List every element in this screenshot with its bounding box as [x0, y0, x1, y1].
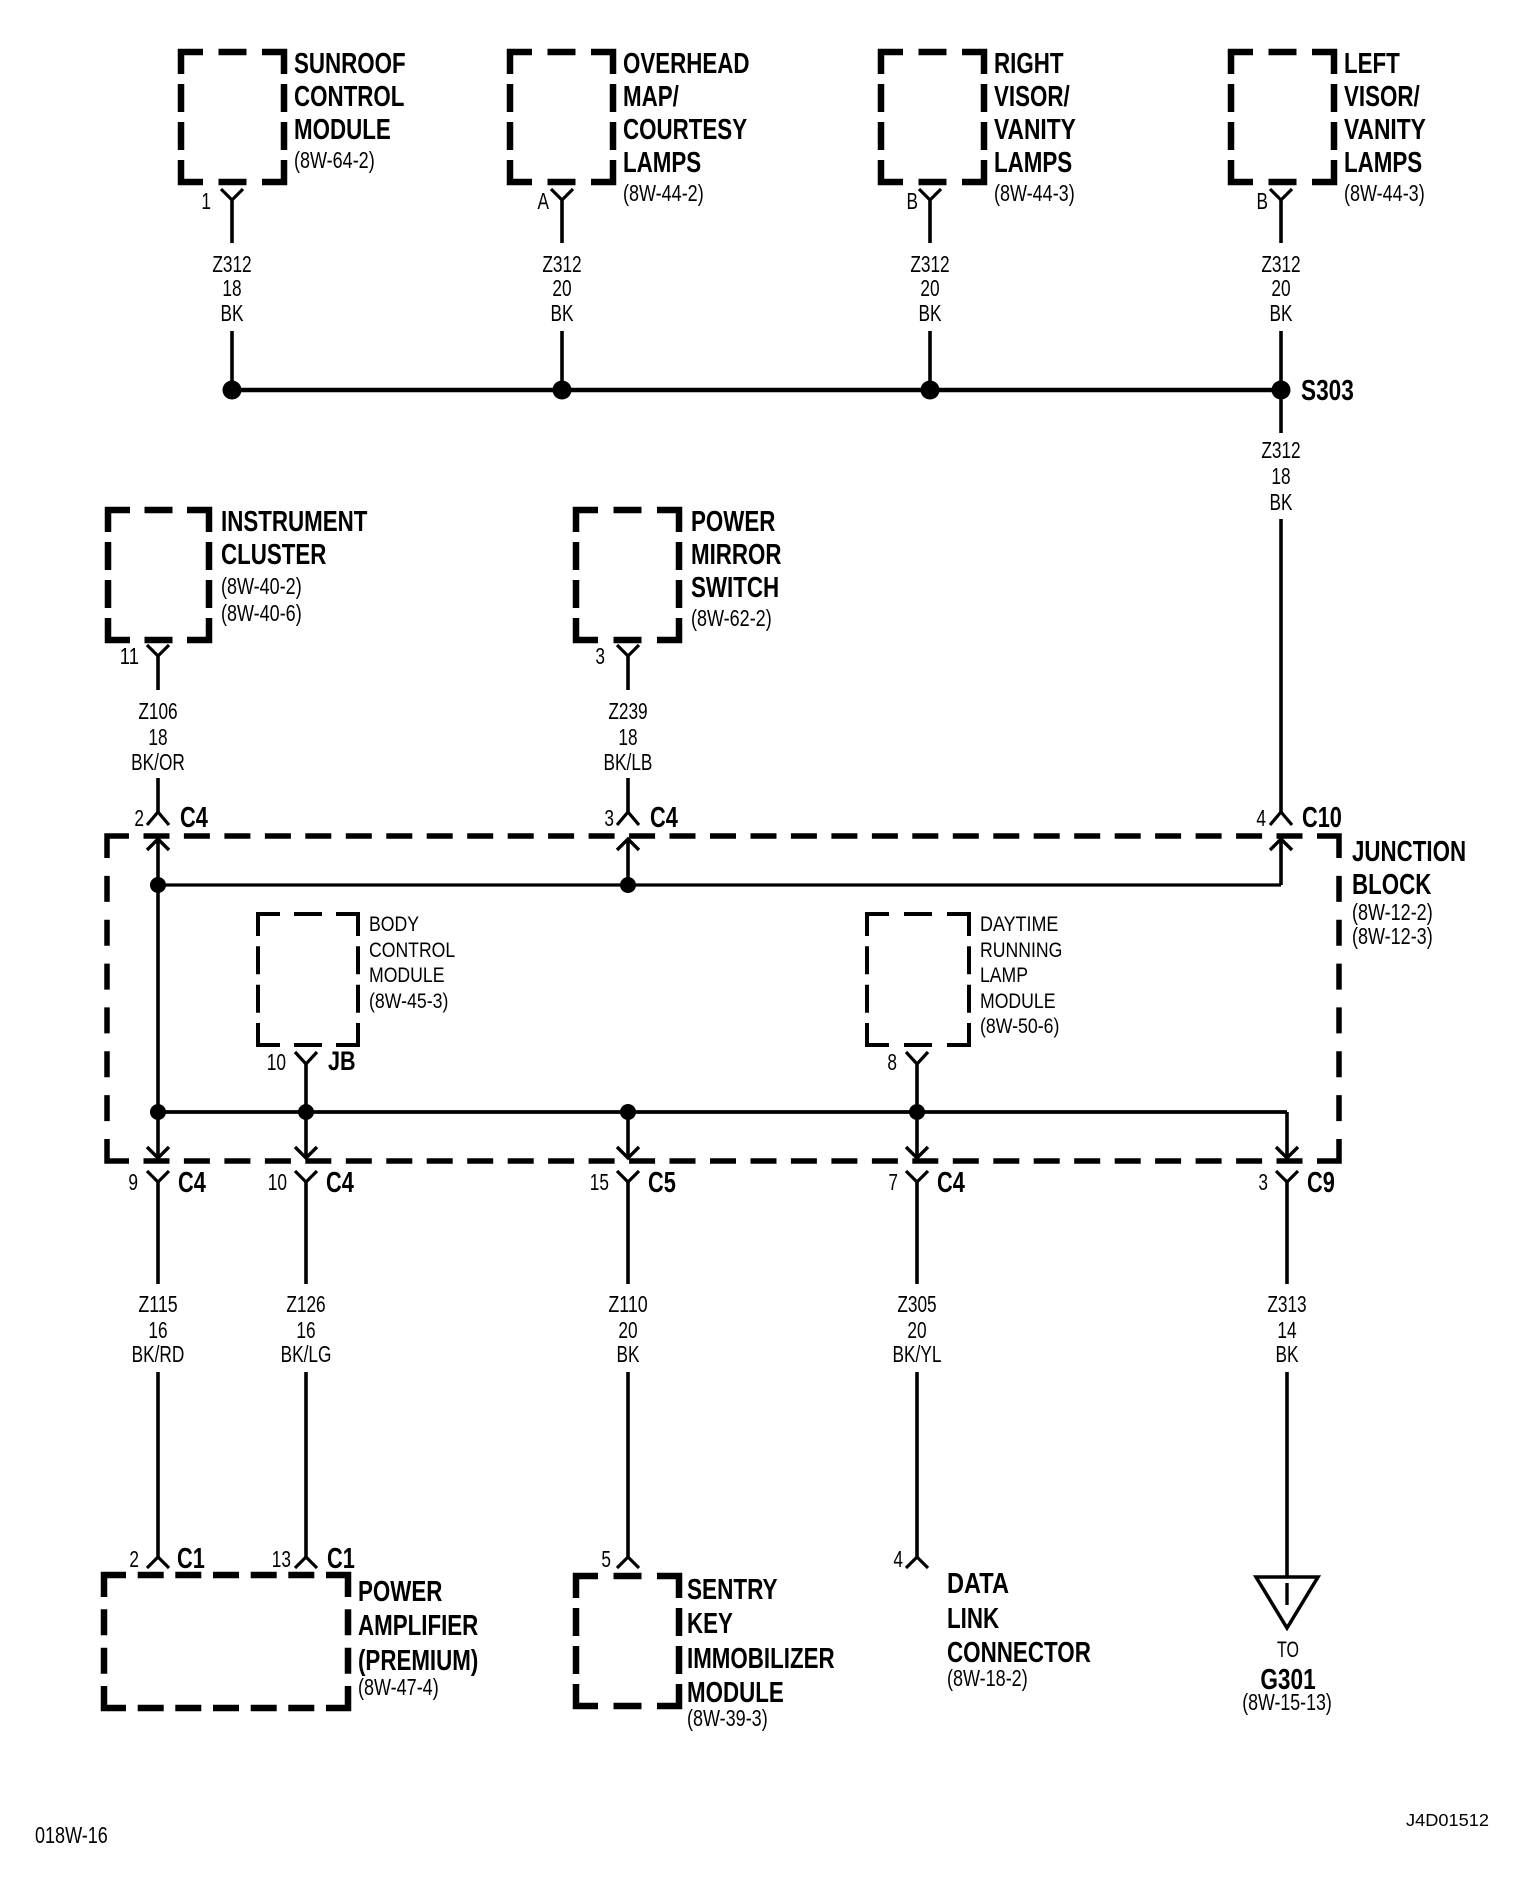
svg-text:TO: TO [1277, 1637, 1299, 1662]
svg-text:B: B [1257, 188, 1269, 214]
svg-text:BK: BK [221, 300, 244, 326]
svg-text:11: 11 [120, 643, 139, 669]
svg-text:LEFT: LEFT [1344, 48, 1400, 80]
svg-text:7: 7 [888, 1169, 898, 1195]
svg-text:Z115: Z115 [138, 1291, 177, 1317]
svg-text:KEY: KEY [687, 1608, 733, 1640]
svg-text:(8W-44-3): (8W-44-3) [1344, 180, 1425, 206]
svg-text:A: A [538, 188, 550, 214]
svg-text:MODULE: MODULE [294, 114, 391, 146]
svg-text:18: 18 [148, 724, 167, 750]
svg-text:16: 16 [148, 1317, 167, 1343]
svg-text:2: 2 [134, 805, 144, 831]
svg-text:SWITCH: SWITCH [691, 572, 779, 604]
svg-text:BK/YL: BK/YL [893, 1341, 942, 1367]
svg-text:(8W-40-6): (8W-40-6) [221, 600, 302, 626]
svg-text:Z106: Z106 [138, 698, 177, 724]
svg-text:Z312: Z312 [1261, 437, 1300, 463]
svg-text:BLOCK: BLOCK [1352, 869, 1431, 901]
svg-text:JUNCTION: JUNCTION [1352, 836, 1466, 868]
svg-text:C9: C9 [1307, 1167, 1335, 1199]
svg-text:Z312: Z312 [1261, 251, 1300, 277]
svg-text:LAMPS: LAMPS [1344, 147, 1422, 179]
svg-text:RIGHT: RIGHT [994, 48, 1064, 80]
svg-text:018W-16: 018W-16 [35, 1822, 108, 1848]
svg-text:VANITY: VANITY [994, 114, 1076, 146]
svg-text:18: 18 [618, 724, 637, 750]
svg-text:BK: BK [617, 1341, 640, 1367]
svg-text:DATA: DATA [947, 1568, 1009, 1600]
svg-text:MODULE: MODULE [369, 964, 445, 987]
svg-text:(8W-44-2): (8W-44-2) [623, 180, 704, 206]
svg-text:C5: C5 [648, 1167, 676, 1199]
svg-text:Z313: Z313 [1267, 1291, 1306, 1317]
svg-text:IMMOBILIZER: IMMOBILIZER [687, 1643, 835, 1675]
svg-text:Z239: Z239 [608, 698, 647, 724]
svg-text:BK/LG: BK/LG [281, 1341, 332, 1367]
svg-text:5: 5 [601, 1546, 611, 1572]
svg-text:Z312: Z312 [212, 251, 251, 277]
svg-text:MAP/: MAP/ [623, 81, 679, 113]
svg-text:Z312: Z312 [910, 251, 949, 277]
svg-text:LINK: LINK [947, 1603, 999, 1635]
svg-text:LAMPS: LAMPS [623, 147, 701, 179]
svg-text:(8W-44-3): (8W-44-3) [994, 180, 1075, 206]
svg-text:C4: C4 [937, 1167, 965, 1199]
svg-text:SENTRY: SENTRY [687, 1574, 778, 1606]
svg-text:3: 3 [595, 643, 605, 669]
svg-text:MIRROR: MIRROR [691, 539, 782, 571]
svg-text:C1: C1 [327, 1543, 355, 1575]
svg-text:POWER: POWER [358, 1576, 442, 1608]
svg-text:POWER: POWER [691, 506, 775, 538]
svg-text:COURTESY: COURTESY [623, 114, 747, 146]
svg-text:Z110: Z110 [608, 1291, 647, 1317]
svg-text:SUNROOF: SUNROOF [294, 48, 406, 80]
svg-text:3: 3 [604, 805, 614, 831]
svg-text:3: 3 [1258, 1169, 1268, 1195]
svg-text:BODY: BODY [369, 913, 419, 936]
svg-text:18: 18 [222, 275, 241, 301]
svg-text:16: 16 [296, 1317, 315, 1343]
svg-text:B: B [907, 188, 919, 214]
svg-text:BK: BK [551, 300, 574, 326]
svg-text:4: 4 [1256, 805, 1266, 831]
svg-text:15: 15 [590, 1169, 609, 1195]
svg-text:MODULE: MODULE [980, 990, 1056, 1013]
svg-text:20: 20 [907, 1317, 926, 1343]
svg-text:8: 8 [887, 1049, 897, 1075]
svg-text:C4: C4 [180, 802, 208, 834]
svg-text:10: 10 [267, 1049, 286, 1075]
svg-text:BK/RD: BK/RD [132, 1341, 185, 1367]
svg-text:(8W-12-3): (8W-12-3) [1352, 923, 1433, 949]
svg-text:C10: C10 [1302, 802, 1342, 834]
svg-text:JB: JB [328, 1046, 356, 1076]
svg-text:LAMP: LAMP [980, 964, 1028, 987]
svg-text:10: 10 [268, 1169, 287, 1195]
svg-text:1: 1 [201, 188, 211, 214]
svg-text:Z126: Z126 [286, 1291, 325, 1317]
svg-text:BK: BK [1270, 300, 1293, 326]
svg-text:18: 18 [1271, 463, 1290, 489]
svg-text:J4D01512: J4D01512 [1406, 1810, 1489, 1830]
svg-text:(8W-50-6): (8W-50-6) [980, 1015, 1059, 1038]
svg-text:Z312: Z312 [542, 251, 581, 277]
svg-text:LAMPS: LAMPS [994, 147, 1072, 179]
svg-text:VISOR/: VISOR/ [994, 81, 1070, 113]
svg-text:20: 20 [552, 275, 571, 301]
svg-text:VANITY: VANITY [1344, 114, 1426, 146]
svg-text:9: 9 [128, 1169, 138, 1195]
svg-text:13: 13 [272, 1546, 291, 1572]
svg-text:INSTRUMENT: INSTRUMENT [221, 506, 368, 538]
svg-text:(8W-47-4): (8W-47-4) [358, 1674, 439, 1700]
svg-text:(8W-40-2): (8W-40-2) [221, 573, 302, 599]
svg-text:RUNNING: RUNNING [980, 939, 1062, 962]
svg-text:CONTROL: CONTROL [369, 939, 455, 962]
svg-text:S303: S303 [1301, 375, 1354, 407]
svg-text:Z305: Z305 [897, 1291, 936, 1317]
svg-text:BK: BK [1276, 1341, 1299, 1367]
svg-text:20: 20 [1271, 275, 1290, 301]
svg-text:OVERHEAD: OVERHEAD [623, 48, 750, 80]
svg-text:VISOR/: VISOR/ [1344, 81, 1420, 113]
svg-text:20: 20 [920, 275, 939, 301]
svg-text:(8W-64-2): (8W-64-2) [294, 147, 375, 173]
svg-text:20: 20 [618, 1317, 637, 1343]
svg-text:BK/LB: BK/LB [604, 749, 653, 775]
svg-text:C4: C4 [650, 802, 678, 834]
svg-text:BK: BK [919, 300, 942, 326]
svg-text:(8W-18-2): (8W-18-2) [947, 1665, 1028, 1691]
svg-text:CLUSTER: CLUSTER [221, 539, 326, 571]
svg-text:BK: BK [1270, 489, 1293, 515]
svg-text:C1: C1 [177, 1543, 205, 1575]
svg-text:DAYTIME: DAYTIME [980, 913, 1058, 936]
svg-text:2: 2 [129, 1546, 139, 1572]
svg-text:(PREMIUM): (PREMIUM) [358, 1645, 478, 1677]
svg-text:14: 14 [1277, 1317, 1296, 1343]
svg-text:BK/OR: BK/OR [131, 749, 185, 775]
svg-text:(8W-39-3): (8W-39-3) [687, 1705, 768, 1731]
svg-text:(8W-62-2): (8W-62-2) [691, 605, 772, 631]
svg-text:(8W-12-2): (8W-12-2) [1352, 899, 1433, 925]
svg-text:4: 4 [893, 1546, 903, 1572]
svg-text:(8W-15-13): (8W-15-13) [1242, 1689, 1332, 1715]
svg-text:AMPLIFIER: AMPLIFIER [358, 1610, 478, 1642]
svg-text:C4: C4 [178, 1167, 206, 1199]
svg-text:(8W-45-3): (8W-45-3) [369, 990, 448, 1013]
svg-text:CONTROL: CONTROL [294, 81, 404, 113]
svg-text:C4: C4 [326, 1167, 354, 1199]
